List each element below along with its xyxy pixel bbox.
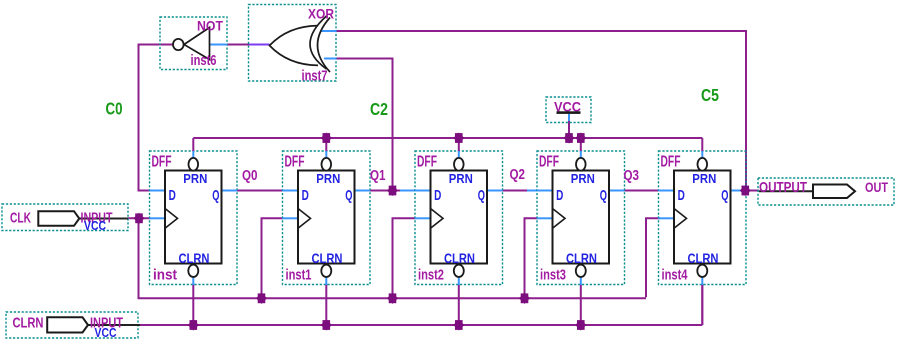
NOT triangle xyxy=(184,28,210,60)
XOR gate body (mirrored, points left) xyxy=(270,26,319,66)
wire: XOR output to NOT input xyxy=(227,44,249,46)
junction: CLRN bus FF2 xyxy=(321,319,332,330)
svg-text:Q3: Q3 xyxy=(624,168,640,184)
junction: PRN bus FF2 xyxy=(321,132,332,143)
wire: Q2 net FF3.Q to FF4.D xyxy=(501,190,528,192)
junction: CLRN bus FF4 xyxy=(575,319,586,330)
D flip-flop inst xyxy=(150,138,238,325)
pin flag xyxy=(38,211,79,226)
svg-text:inst1: inst1 xyxy=(286,267,312,284)
wire: Q1 blue segment into FF3 D xyxy=(400,190,416,192)
pin lead xyxy=(84,324,140,326)
svg-text:inst7: inst7 xyxy=(302,68,328,85)
selection box xyxy=(546,97,591,123)
junction: CLK pin xyxy=(133,213,144,224)
wire: Q1 net FF2.Q to FF3.D xyxy=(368,190,400,192)
XOR body back arc xyxy=(310,16,327,69)
junction: clock bus FF3 xyxy=(387,293,398,304)
wire: clock feeder FF3 xyxy=(393,218,416,298)
junction: Q1 to XOR xyxy=(387,185,398,196)
wire: XOR bottom input from Q1 vertical C2 xyxy=(336,59,393,191)
wire: clock feeder FF4 xyxy=(525,218,539,298)
junction: CLRN bus FF1 xyxy=(188,319,199,330)
svg-text:inst2: inst2 xyxy=(418,267,444,284)
wire: XOR output stub violet xyxy=(249,44,270,46)
junction: PRN bus VCC xyxy=(563,132,574,143)
junction: CLRN bus FF3 xyxy=(453,319,464,330)
svg-text:CLRN: CLRN xyxy=(13,314,44,331)
junction: clock bus FF2 xyxy=(256,293,267,304)
svg-text:NOT: NOT xyxy=(197,19,224,34)
wire: PRN bus horizontal xyxy=(193,137,702,139)
wire: VCC symbol drop xyxy=(568,120,570,138)
selection box xyxy=(758,178,894,205)
wire: clock distribution vertical from CLK junction xyxy=(138,218,140,298)
wire: clock bus horizontal xyxy=(138,297,647,299)
NOT bubble xyxy=(173,39,184,50)
XOR gate inst7 xyxy=(249,5,337,85)
D flip-flop inst3 xyxy=(537,138,625,325)
pin flag xyxy=(47,317,88,332)
D flip-flop inst4 xyxy=(659,138,747,325)
svg-text:OUTPUT: OUTPUT xyxy=(759,179,807,196)
wire: clock feeder FF2 xyxy=(262,218,284,298)
XOR extra input arc xyxy=(318,18,331,73)
selection box xyxy=(160,17,227,70)
wire: Q4 out to OUTPUT pin xyxy=(737,190,759,192)
junction: PRN bus FF3 xyxy=(453,132,464,143)
VCC power symbol xyxy=(546,97,591,123)
pin lead xyxy=(759,190,815,192)
wire: clock feeder FF5 xyxy=(646,218,660,297)
pin lead xyxy=(75,218,128,220)
XOR bottom input stub xyxy=(324,58,337,60)
D flip-flop inst2 xyxy=(415,138,503,325)
svg-text:OUT: OUT xyxy=(865,179,888,195)
output pin OUT xyxy=(758,178,894,205)
wire: CLRN bus horizontal xyxy=(138,324,702,326)
svg-text:inst4: inst4 xyxy=(662,267,688,284)
wire: Q2 blue segment into FF4 D xyxy=(527,190,538,192)
svg-text:Q2: Q2 xyxy=(510,167,526,183)
XOR top input stub xyxy=(321,30,337,32)
svg-text:C2: C2 xyxy=(370,99,388,119)
wire: Q3 net FF4.Q to FF5.D xyxy=(623,190,661,192)
svg-text:C0: C0 xyxy=(106,99,123,119)
input pin CLK xyxy=(2,204,128,233)
junction: Q4 to XOR/OUT xyxy=(740,185,751,196)
wire: XOR top input from Q4 vertical C5 xyxy=(336,31,746,191)
wire: CLRN bus right end up to FF5 CLRN xyxy=(701,284,703,325)
svg-text:inst3: inst3 xyxy=(540,267,566,284)
wire: Q0 net FF1.Q to FF2.D xyxy=(237,190,283,192)
NOT input stub xyxy=(210,44,228,46)
wire: NOT output feedback C0 (NOT out -> down -> FF1 D) xyxy=(139,45,174,191)
D flip-flop inst1 xyxy=(283,138,371,325)
svg-text:VCC: VCC xyxy=(95,326,117,340)
wire: CLK pin to junction and FF1 clock xyxy=(128,217,151,219)
selection box xyxy=(2,204,128,231)
junction: PRN bus FF4 xyxy=(575,132,586,143)
NOT gate inst6 xyxy=(160,17,227,70)
selection box xyxy=(249,5,337,82)
VCC bar xyxy=(557,111,581,114)
svg-text:C5: C5 xyxy=(701,85,719,105)
svg-text:CLK: CLK xyxy=(10,209,31,226)
svg-text:inst6: inst6 xyxy=(191,52,217,69)
svg-text:Q0: Q0 xyxy=(242,168,258,184)
pin flag xyxy=(813,185,855,199)
junction: clock bus FF4 xyxy=(519,293,530,304)
svg-text:XOR: XOR xyxy=(308,7,334,22)
input pin CLRN xyxy=(6,312,140,340)
selection box xyxy=(6,312,138,338)
svg-text:VCC: VCC xyxy=(84,219,106,233)
wire: VCC symbol stub xyxy=(568,113,570,121)
svg-text:inst: inst xyxy=(153,267,177,284)
svg-text:Q1: Q1 xyxy=(370,168,386,184)
